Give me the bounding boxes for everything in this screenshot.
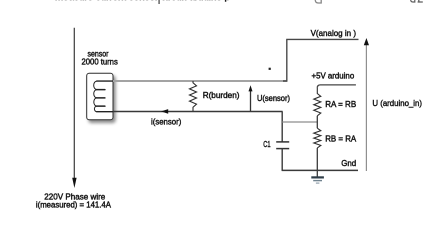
- svg-text:Gnd: Gnd: [341, 158, 356, 168]
- coil winding (secondary): [94, 81, 113, 112]
- wire: RA to RB: [316, 116, 318, 128]
- ground symbol: [311, 177, 324, 183]
- U(sensor) arrow: [250, 91, 252, 112]
- wire: sensor top to analog node (gray): [113, 80, 287, 82]
- sensor CT box: [87, 73, 113, 120]
- wire: sensor bottom (i(sensor) wire): [113, 111, 283, 113]
- svg-text:+5V arduino: +5V arduino: [312, 71, 355, 80]
- svg-text:RA = RB: RA = RB: [325, 99, 356, 109]
- U(arduino_in) arrow: [365, 44, 367, 171]
- resistor RA: [314, 88, 321, 116]
- wire: RB to ground rail: [316, 148, 318, 178]
- phase wire current arrowhead: [72, 178, 76, 188]
- svg-text:2000 turns: 2000 turns: [82, 57, 118, 66]
- capacitor C1: [276, 141, 289, 143]
- small stray dot: [269, 68, 271, 70]
- wire: C1 to ground rail: [281, 149, 283, 171]
- svg-text:V(analog in ): V(analog in ): [311, 29, 357, 38]
- svg-text:U (arduino_in): U (arduino_in): [372, 98, 422, 108]
- svg-text:C1: C1: [263, 140, 271, 149]
- svg-text:i(measured) = 141.4A: i(measured) = 141.4A: [36, 200, 111, 210]
- svg-text:i(sensor): i(sensor): [151, 117, 182, 126]
- wire: vertical up to V(analog in): [283, 40, 287, 81]
- cut-off text line at very top: [55, 0, 423, 4]
- svg-text:U(sensor): U(sensor): [257, 94, 290, 103]
- wire: V(analog in) horizontal: [286, 38, 358, 40]
- ground rail: [282, 169, 358, 171]
- svg-text:measure current sensor circuit: measure current sensor circuit arduino p: [55, 0, 231, 2]
- svg-text:R(burden): R(burden): [203, 91, 240, 100]
- wire: junction to divider (gray): [282, 121, 317, 123]
- +5V arduino rail: [317, 85, 356, 88]
- svg-text:RB = RA: RB = RA: [325, 133, 356, 143]
- i(sensor) arrowhead: [161, 109, 168, 114]
- wire: vertical down to C1: [281, 112, 283, 142]
- 220V phase wire: [73, 28, 75, 179]
- resistor R(burden): [190, 81, 197, 111]
- resistor RB: [314, 128, 321, 148]
